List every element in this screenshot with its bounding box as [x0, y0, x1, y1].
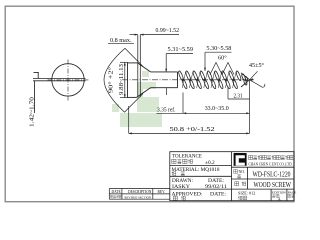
front view vertical centerline [67, 60, 69, 101]
front view slot bottom line [33, 80, 86, 82]
company name CJK row [249, 155, 295, 167]
svg-text:90° +2°: 90° +2° [108, 66, 115, 93]
dim 3.35 ref [157, 88, 184, 114]
size cell [238, 191, 255, 200]
svg-text:REV.: REV. [158, 190, 166, 194]
dim 0.99~1.52 slot width [130, 27, 180, 36]
front view slot top line [33, 78, 86, 80]
title block frame [170, 152, 294, 201]
svg-text:IASKY: IASKY [172, 185, 191, 190]
svg-text:2.31: 2.31 [234, 93, 243, 100]
drawing number cell [234, 170, 291, 179]
screw tip [241, 73, 250, 87]
material cell [172, 168, 221, 176]
dim 5.31~5.59 shank dia [165, 46, 193, 72]
svg-text:45±5°: 45±5° [249, 62, 265, 69]
svg-text:5.30~5.58: 5.30~5.58 [206, 45, 231, 52]
svg-text:33.0~35.0: 33.0~35.0 [205, 105, 229, 112]
watermark logo fragments [112, 71, 162, 127]
svg-text:EDITION: EDITION [272, 191, 286, 195]
svg-text:9.88~11.13: 9.88~11.13 [119, 64, 125, 95]
dim 9.88~11.13 head dia [119, 62, 128, 97]
front view horizontal centerline [48, 79, 89, 81]
dim 5.30~5.58 thread dia [204, 45, 232, 71]
dim 2.31 pitch [228, 87, 250, 100]
svg-text:DATE:: DATE: [210, 192, 226, 197]
front view head circle [52, 64, 84, 96]
svg-text:5.31~5.59: 5.31~5.59 [168, 46, 194, 53]
svg-text:DRAWN:: DRAWN: [172, 179, 193, 184]
svg-text:±0.2: ±0.2 [205, 160, 215, 166]
svg-text:MATERIAL: MQ1018: MATERIAL: MQ1018 [172, 168, 221, 173]
drawn cell [172, 179, 228, 190]
dim 50.8 overall length [129, 80, 250, 135]
tolerance cell [172, 155, 215, 166]
thread crests bottom [181, 78, 238, 89]
product name cell [235, 181, 292, 189]
sheet border frame [5, 6, 294, 202]
svg-text:1.42~1.70: 1.42~1.70 [29, 97, 35, 127]
head slot lines [138, 35, 141, 98]
shank [151, 72, 178, 88]
screw axis centerline [122, 79, 254, 81]
svg-text:3.35 ref.: 3.35 ref. [157, 107, 176, 114]
svg-text:NO.: NO. [239, 170, 245, 174]
svg-text:99/02/11: 99/02/11 [205, 185, 228, 190]
revision table [109, 189, 170, 200]
svg-text:60°: 60° [218, 55, 227, 62]
dim 60 degree thread angle [210, 55, 234, 75]
svg-text:PAGE: PAGE [288, 191, 297, 195]
svg-text:WOOD SCREW: WOOD SCREW [254, 181, 292, 189]
approved cell [172, 192, 227, 200]
dim 90 deg countersink angle [104, 48, 143, 112]
dim 33.0~35.0 thread length [183, 93, 250, 115]
svg-text:APPROVED:: APPROVED: [172, 192, 203, 197]
svg-text:DATE:: DATE: [208, 179, 224, 184]
svg-text:SIZE: #12: SIZE: #12 [238, 191, 255, 196]
dim 1.42-1.70 ticks [37, 73, 39, 79]
svg-text:REVISED SECTION: REVISED SECTION [125, 195, 152, 199]
dim 0.8 max [108, 37, 134, 44]
page cell [288, 191, 297, 198]
svg-text:0.99~1.52: 0.99~1.52 [156, 27, 180, 34]
dim 45+-5 point angle [249, 62, 265, 87]
svg-text:DATE: DATE [112, 190, 122, 194]
thread flank lines [182, 72, 236, 88]
svg-text:0.8 max.: 0.8 max. [110, 37, 132, 44]
company logo [234, 153, 247, 166]
edition cell [272, 191, 286, 202]
svg-text:50.8 +0/-1.52: 50.8 +0/-1.52 [170, 126, 215, 133]
thread crests top [178, 70, 242, 81]
svg-text:WD-FSLC-1220: WD-FSLC-1220 [253, 170, 291, 178]
svg-text:TOLERANCE: TOLERANCE [172, 155, 202, 160]
svg-text:DESCRIPTION: DESCRIPTION [128, 190, 152, 194]
side view head outline [128, 63, 151, 98]
